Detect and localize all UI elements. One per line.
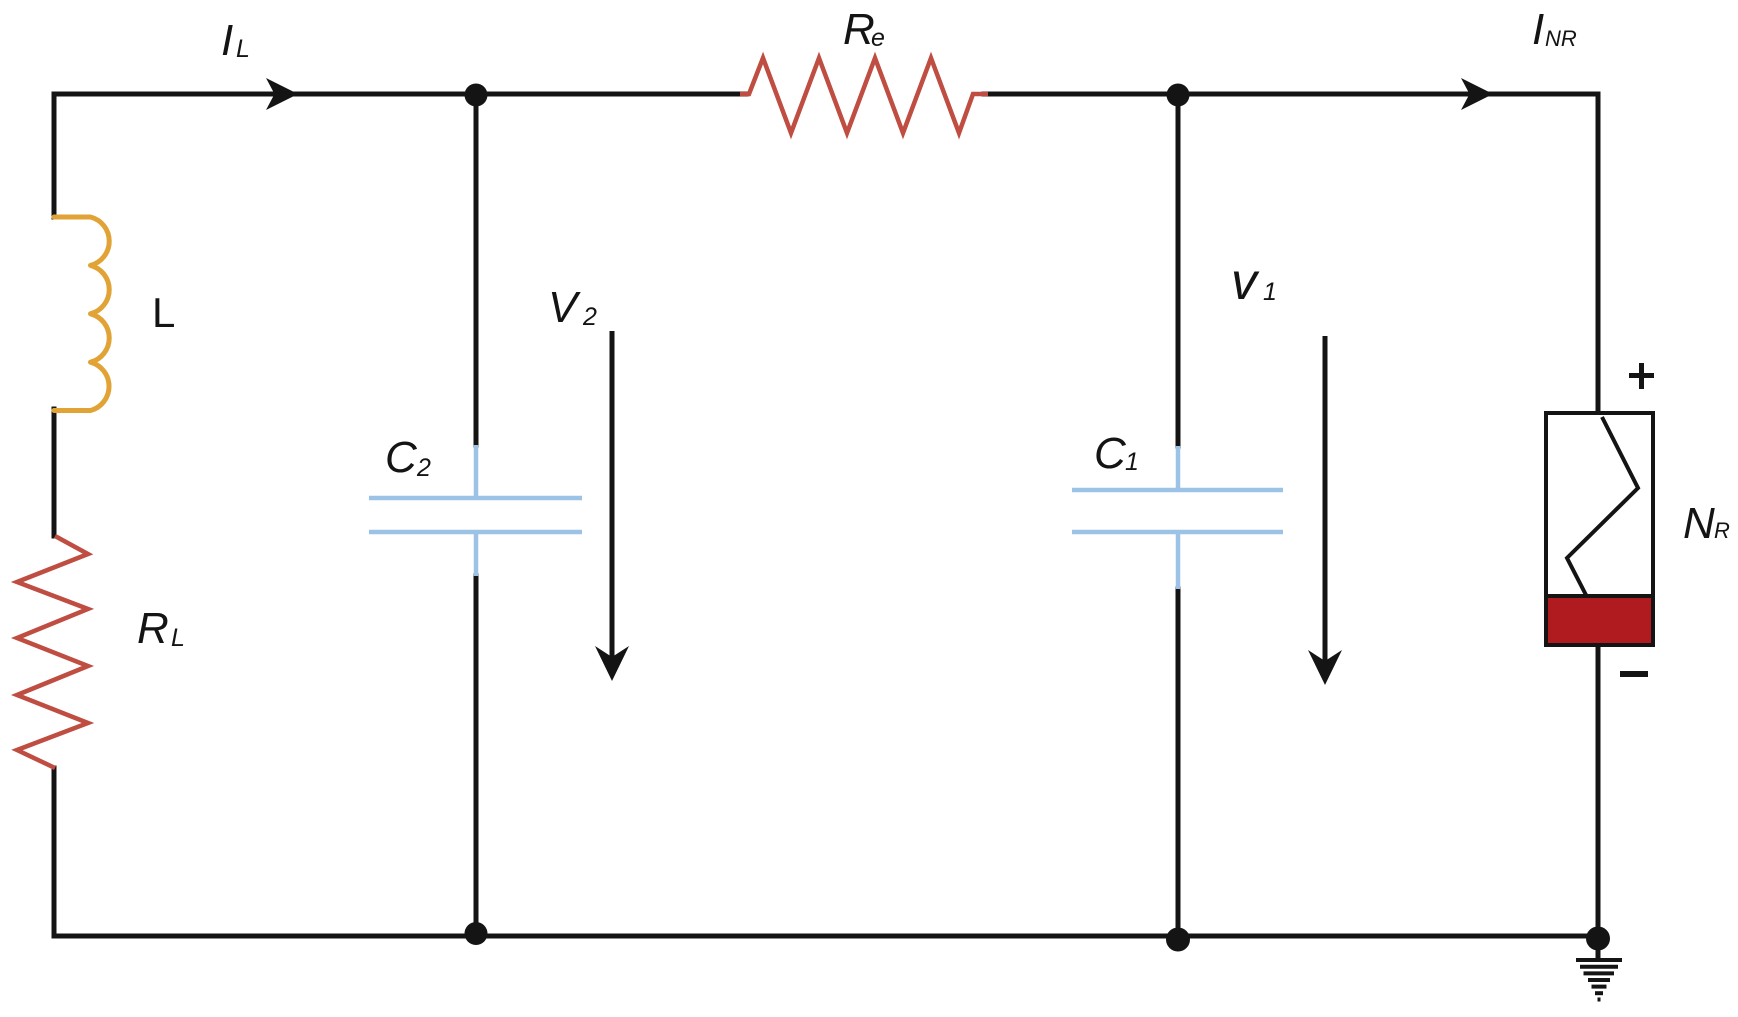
svg-text:2: 2 — [582, 303, 597, 331]
svg-text:C: C — [385, 433, 418, 482]
svg-text:R: R — [137, 604, 169, 653]
svg-text:C: C — [1094, 429, 1127, 478]
svg-text:2: 2 — [416, 454, 431, 482]
svg-text:L: L — [152, 289, 175, 336]
svg-text:e: e — [871, 24, 885, 52]
svg-text:L: L — [171, 624, 185, 652]
svg-text:I: I — [1532, 5, 1544, 54]
svg-text:NR: NR — [1545, 26, 1577, 51]
svg-text:N: N — [1683, 499, 1715, 548]
svg-text:1: 1 — [1125, 448, 1139, 476]
svg-text:L: L — [236, 35, 250, 63]
svg-text:v: v — [1231, 253, 1260, 311]
svg-text:R: R — [843, 5, 875, 54]
svg-text:V: V — [548, 283, 581, 332]
svg-text:I: I — [221, 16, 233, 65]
svg-text:1: 1 — [1263, 278, 1277, 306]
svg-text:R: R — [1714, 518, 1730, 543]
